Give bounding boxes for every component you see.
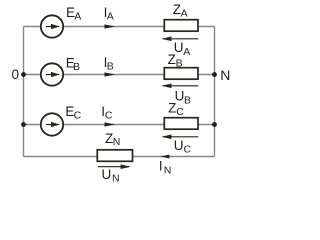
svg-text:C: C — [176, 106, 184, 118]
svg-text:C: C — [74, 109, 82, 121]
svg-text:B: B — [107, 60, 114, 72]
svg-text:U: U — [174, 138, 184, 153]
svg-text:C: C — [105, 109, 113, 121]
svg-text:A: A — [74, 10, 81, 22]
svg-text:0: 0 — [12, 67, 20, 82]
svg-text:C: C — [184, 144, 192, 156]
svg-text:N: N — [164, 164, 172, 176]
svg-text:A: A — [107, 10, 114, 22]
svg-text:I: I — [159, 159, 163, 174]
svg-text:N: N — [220, 67, 230, 83]
svg-text:A: A — [183, 46, 190, 58]
svg-text:A: A — [181, 8, 188, 20]
svg-text:N: N — [113, 136, 121, 148]
svg-text:B: B — [73, 61, 80, 73]
svg-text:B: B — [176, 57, 183, 69]
svg-text:B: B — [184, 94, 191, 106]
svg-text:U: U — [102, 167, 112, 182]
svg-text:N: N — [112, 173, 120, 185]
svg-text:Z: Z — [168, 101, 176, 116]
